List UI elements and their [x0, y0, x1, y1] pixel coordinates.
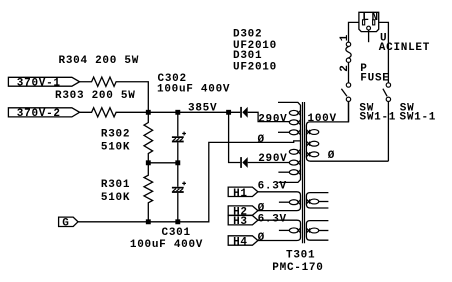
svg-text:290V: 290V	[258, 113, 287, 125]
svg-text:R302: R302	[101, 129, 130, 141]
svg-text:6.3V: 6.3V	[258, 181, 287, 193]
svg-text:R304 200 5W: R304 200 5W	[59, 55, 140, 67]
svg-text:370V-1: 370V-1	[17, 78, 61, 90]
svg-text:D302: D302	[233, 28, 262, 40]
svg-text:290V: 290V	[258, 153, 287, 165]
svg-text:100uF 400V: 100uF 400V	[157, 84, 230, 96]
svg-text:100uF 400V: 100uF 400V	[130, 239, 203, 251]
svg-text:FUSE: FUSE	[360, 73, 389, 85]
svg-text:T301: T301	[286, 249, 315, 261]
svg-text:L: L	[362, 12, 369, 24]
svg-text:Ø: Ø	[258, 232, 265, 244]
svg-text:H1: H1	[233, 188, 248, 200]
svg-text:385V: 385V	[188, 102, 217, 114]
svg-text:510K: 510K	[101, 142, 130, 154]
svg-text:H4: H4	[233, 236, 248, 248]
svg-text:D301: D301	[233, 50, 262, 62]
svg-text:C301: C301	[162, 227, 191, 239]
svg-text:H3: H3	[233, 216, 248, 228]
svg-text:6.3V: 6.3V	[258, 214, 287, 226]
svg-text:Ø: Ø	[258, 202, 265, 214]
svg-text:1: 1	[339, 34, 351, 41]
svg-text:100V: 100V	[308, 113, 337, 125]
svg-text:510K: 510K	[101, 192, 130, 204]
svg-text:N: N	[372, 12, 379, 24]
svg-text:ACINLET: ACINLET	[379, 42, 430, 54]
svg-text:Ø: Ø	[328, 150, 335, 162]
svg-text:370V-2: 370V-2	[17, 108, 61, 120]
svg-text:PMC-170: PMC-170	[272, 262, 323, 274]
svg-text:G: G	[62, 218, 69, 230]
svg-text:UF2010: UF2010	[233, 62, 277, 74]
svg-text:SW1-1: SW1-1	[400, 112, 437, 124]
svg-text:SW1-1: SW1-1	[360, 112, 397, 124]
svg-text:R301: R301	[101, 179, 130, 191]
svg-text:Ø: Ø	[258, 134, 265, 146]
svg-text:R303 200 5W: R303 200 5W	[55, 90, 136, 102]
svg-text:2: 2	[339, 64, 351, 71]
